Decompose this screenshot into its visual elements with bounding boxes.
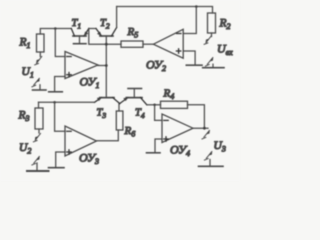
- arrow U3 lower: [204, 152, 211, 161]
- wire R3 bottom lead: [38, 129, 40, 133]
- junction R4 feedback output: [203, 127, 206, 130]
- resistor R3: [35, 108, 43, 129]
- wire OU2 noninverting to ground: [183, 51, 195, 65]
- wire R2 bottom lead: [211, 33, 213, 37]
- op-amp U2 (OU2, mirrored): [153, 29, 183, 58]
- wire T1-T2 emitters top: [89, 28, 96, 30]
- ground T1 base: [74, 43, 87, 45]
- wire OU1 inverting input drop: [55, 29, 65, 57]
- junction OU3 inverting: [53, 101, 56, 104]
- node A junction dot: [54, 27, 57, 30]
- wire OU1 noninverting stub: [55, 77, 65, 92]
- ground U1: [33, 85, 47, 90]
- junction OU4 inverting: [153, 104, 156, 107]
- ground OU4: [147, 152, 161, 154]
- wire common emitter drop to R5: [89, 29, 121, 45]
- resistor R1: [37, 34, 45, 52]
- arrow Uvx upper: [204, 36, 211, 44]
- op-amp U4 (OU4): [162, 114, 193, 143]
- transistor T3: [95, 98, 120, 104]
- wire node A horizontal (R1 top to T1 collector): [40, 29, 71, 35]
- wire top rail to R2: [117, 7, 213, 14]
- ground T4 base (flipped): [128, 88, 142, 90]
- ground OU1: [49, 91, 63, 93]
- arrow U2 lower: [32, 157, 39, 166]
- ground U2: [27, 163, 49, 171]
- arrow U3 upper: [202, 131, 209, 140]
- wire R4 right to output: [188, 105, 205, 128]
- wire T3 emitter to R3: [39, 101, 95, 103]
- transistor T2: [96, 28, 117, 98]
- wire OU3 output to R6: [97, 130, 119, 141]
- arrow U1 lower: [32, 78, 39, 87]
- wire OU4 output: [193, 127, 208, 129]
- wire OU3 inverting drop: [55, 102, 65, 131]
- resistor R5: [121, 41, 143, 47]
- wire OU2 inverting input up to rail: [183, 7, 196, 34]
- wire R3 top lead: [38, 102, 40, 108]
- wire T2 collector riser: [116, 7, 118, 28]
- wire OU1 output: [98, 65, 106, 67]
- wire R1 bottom lead: [39, 52, 41, 57]
- wire T4 collector to R4: [147, 104, 161, 106]
- junction top rail OU2 input: [195, 5, 198, 8]
- wire OU4 inverting drop: [155, 105, 162, 121]
- ground Uvx: [203, 64, 224, 68]
- wire OU3 noninverting stub: [56, 152, 65, 167]
- resistor R6: [116, 111, 123, 130]
- op-amp U3 (OU3): [65, 126, 97, 156]
- transistor T4: [120, 89, 147, 105]
- arrow U2 upper: [33, 134, 40, 142]
- resistor R4: [161, 101, 188, 108]
- arrow U1 upper: [35, 57, 42, 65]
- op-amp U1 (OU1): [65, 52, 98, 79]
- arrow Uvx lower: [205, 58, 212, 67]
- transistor T1: [71, 29, 89, 44]
- resistor R2: [208, 13, 216, 33]
- wire OU4 noninverting stub: [155, 139, 162, 152]
- wire R5 to OU2 output: [143, 43, 153, 45]
- junction T2 base with R5 wire: [105, 43, 108, 46]
- ground U3: [199, 160, 224, 167]
- ground OU2: [186, 64, 202, 66]
- wire R6 top lead: [118, 104, 120, 111]
- junction OU1 output on base line: [105, 64, 108, 67]
- ground OU3: [49, 167, 65, 169]
